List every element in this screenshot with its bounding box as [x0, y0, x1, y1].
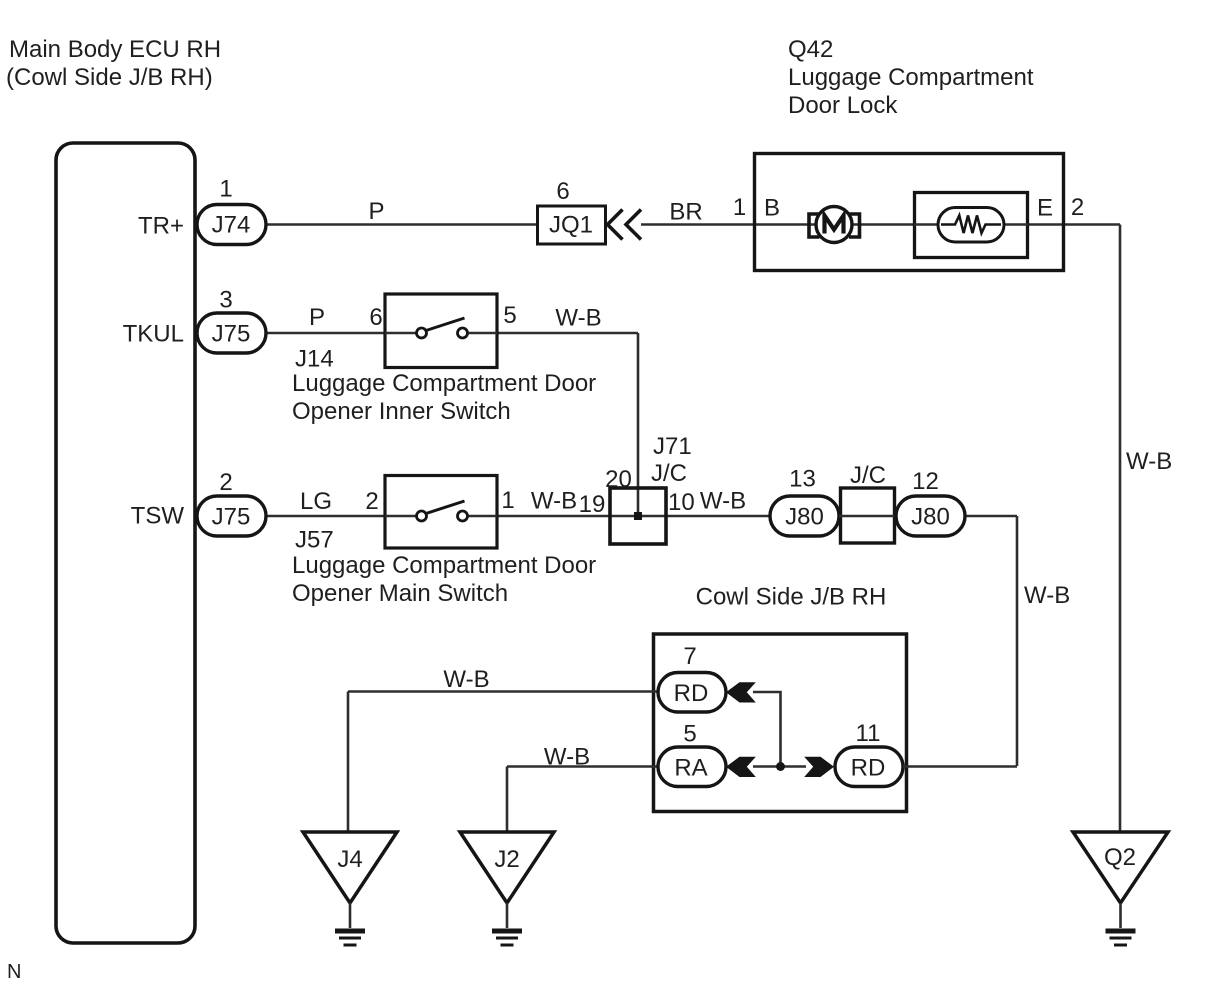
connector J74 pin 1	[197, 205, 266, 245]
svg-text:19: 19	[579, 491, 606, 518]
junction dot	[776, 762, 785, 771]
svg-text:W-B: W-B	[1024, 582, 1070, 609]
svg-text:(Cowl Side J/B RH): (Cowl Side J/B RH)	[6, 64, 213, 91]
svg-text:J/C: J/C	[651, 460, 687, 487]
svg-text:TSW: TSW	[131, 503, 185, 530]
svg-text:1: 1	[501, 487, 514, 514]
resistor box	[915, 193, 1028, 258]
svg-text:B: B	[764, 195, 780, 222]
svg-text:J74: J74	[212, 212, 251, 239]
svg-text:3: 3	[219, 287, 232, 314]
svg-text:J4: J4	[337, 846, 362, 873]
ground triangle J4	[303, 832, 397, 903]
motor M	[816, 207, 852, 243]
svg-text:Opener Main Switch: Opener Main Switch	[292, 580, 508, 607]
svg-text:TR+: TR+	[138, 213, 184, 240]
arrow left RA5	[726, 757, 756, 777]
svg-text:W-B: W-B	[544, 744, 590, 771]
svg-text:13: 13	[789, 466, 816, 493]
svg-text:5: 5	[683, 721, 696, 748]
svg-text:W-B: W-B	[555, 305, 601, 332]
svg-text:10: 10	[668, 489, 695, 516]
junction J71 J/C	[610, 488, 666, 544]
svg-text:RD: RD	[851, 755, 886, 782]
connector J80 pin 12	[896, 496, 965, 536]
svg-text:LG: LG	[300, 488, 332, 515]
switch J14	[385, 294, 497, 368]
svg-text:12: 12	[912, 468, 939, 495]
svg-text:Cowl Side J/B RH: Cowl Side J/B RH	[696, 584, 887, 611]
wire TR+ to JQ1	[266, 223, 537, 226]
svg-text:Door Lock: Door Lock	[788, 92, 898, 119]
wire arrow to junction	[753, 692, 781, 767]
wire Q42 internal	[754, 223, 1120, 226]
svg-text:J14: J14	[295, 346, 334, 373]
connector chevrons	[608, 210, 623, 240]
svg-text:J71: J71	[653, 433, 692, 460]
connector J75 pin 3	[197, 313, 266, 353]
wire to RD7	[348, 690, 658, 693]
wire RA to RD11	[753, 765, 806, 768]
svg-text:Main Body ECU RH: Main Body ECU RH	[9, 36, 221, 63]
svg-text:P: P	[309, 304, 325, 331]
svg-text:11: 11	[856, 720, 881, 747]
svg-text:E: E	[1037, 195, 1053, 222]
svg-text:J57: J57	[295, 527, 334, 554]
svg-text:Opener Inner Switch: Opener Inner Switch	[292, 398, 511, 425]
svg-text:W-B: W-B	[443, 666, 489, 693]
svg-text:1: 1	[219, 176, 232, 203]
connector RA pin 5	[658, 747, 726, 787]
svg-text:5: 5	[503, 302, 516, 329]
svg-text:Luggage Compartment Door: Luggage Compartment Door	[292, 370, 596, 397]
resistor wire through	[914, 223, 1028, 226]
connector RD pin 7	[658, 673, 726, 713]
connector J75 pin 2	[197, 496, 266, 536]
svg-text:RD: RD	[674, 680, 709, 707]
arrow right RD11	[804, 757, 834, 777]
arrow left RD7	[726, 682, 756, 702]
svg-text:Q2: Q2	[1104, 844, 1136, 871]
svg-text:20: 20	[605, 466, 632, 493]
Q42 box	[755, 154, 1064, 271]
connector J80 pin 13	[770, 496, 839, 536]
resistor stadium	[938, 208, 1004, 243]
wire vertical to J71	[637, 333, 640, 516]
svg-text:W-B: W-B	[700, 488, 746, 515]
Cowl Side J/B RH box	[654, 634, 907, 812]
wire right vertical W-B to Q2	[1119, 225, 1122, 833]
ground triangle Q2	[1073, 832, 1168, 903]
ground triangle J2	[460, 832, 554, 903]
wire RD11 to vertical	[903, 765, 1017, 768]
ground symbol J2	[492, 929, 522, 934]
svg-text:2: 2	[219, 469, 232, 496]
connector RD pin 11	[835, 747, 903, 787]
wire TSW row	[266, 515, 417, 518]
svg-text:TKUL: TKUL	[123, 321, 184, 348]
svg-text:6: 6	[369, 304, 382, 331]
svg-text:J80: J80	[785, 504, 824, 531]
svg-text:Luggage Compartment Door: Luggage Compartment Door	[292, 552, 596, 579]
svg-text:J80: J80	[911, 504, 950, 531]
svg-text:2: 2	[1071, 194, 1084, 221]
svg-text:W-B: W-B	[531, 488, 577, 515]
svg-text:J75: J75	[212, 504, 251, 531]
svg-text:RA: RA	[674, 755, 707, 782]
svg-text:2: 2	[365, 488, 378, 515]
ECU box	[56, 143, 195, 943]
junction J/C box	[841, 488, 895, 543]
switch J57	[385, 476, 497, 549]
svg-text:J2: J2	[494, 846, 519, 873]
svg-text:1: 1	[733, 194, 746, 221]
svg-text:Q42: Q42	[788, 36, 833, 63]
ground symbol Q2	[1106, 929, 1136, 934]
svg-text:JQ1: JQ1	[549, 212, 593, 239]
wire BR segment	[641, 223, 754, 226]
svg-text:N: N	[7, 961, 21, 983]
svg-text:W-B: W-B	[1126, 448, 1172, 475]
svg-text:BR: BR	[669, 199, 702, 226]
svg-text:6: 6	[556, 178, 569, 205]
svg-text:J/C: J/C	[850, 462, 886, 489]
wire to RA5	[507, 765, 658, 768]
wire vertical J80 to RD11	[1016, 516, 1019, 766]
svg-text:Luggage Compartment: Luggage Compartment	[788, 64, 1034, 91]
svg-text:J75: J75	[212, 321, 251, 348]
svg-text:P: P	[368, 198, 384, 225]
ground symbol J4	[335, 929, 365, 934]
svg-text:7: 7	[683, 643, 696, 670]
wire TKUL row	[266, 332, 417, 335]
junction JQ1 pin 6	[538, 206, 606, 244]
